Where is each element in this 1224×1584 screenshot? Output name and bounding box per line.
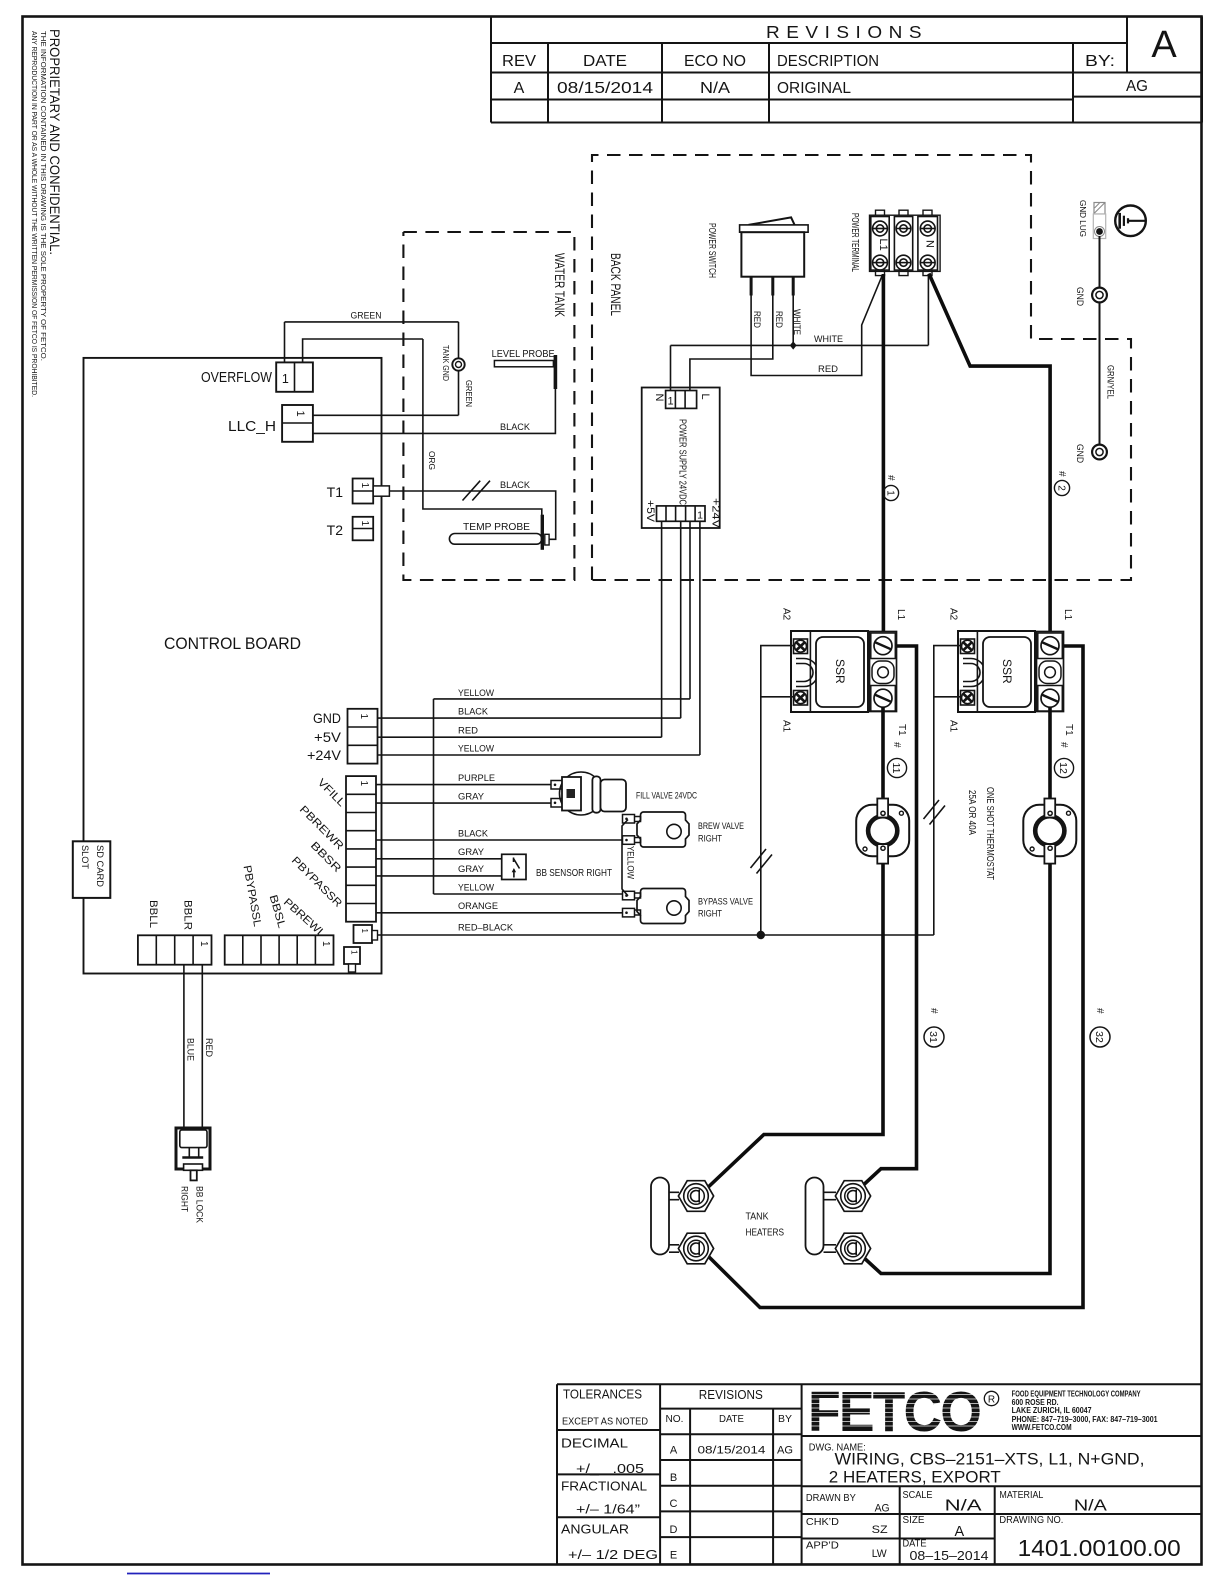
svg-text:SIZE: SIZE xyxy=(903,1515,925,1526)
revisions table xyxy=(491,17,1202,123)
svg-text:SLOT: SLOT xyxy=(79,845,90,869)
svg-text:BBLR: BBLR xyxy=(182,900,194,930)
svg-text:BLUE: BLUE xyxy=(186,1038,196,1061)
wire overflow pin2 xyxy=(303,339,423,362)
svg-text:TANK: TANK xyxy=(746,1211,769,1223)
brew valve right BV1 xyxy=(623,812,745,847)
svg-text:SCALE: SCALE xyxy=(903,1490,933,1501)
SSR U1 xyxy=(781,608,908,736)
svg-text:N/A: N/A xyxy=(700,80,730,97)
wire T1 black to temp probe xyxy=(389,491,555,539)
bb sensor right xyxy=(502,854,613,879)
svg-text:T1: T1 xyxy=(327,484,344,500)
svg-text:TANK GND: TANK GND xyxy=(441,345,451,381)
wire #12 xyxy=(1048,707,1052,799)
svg-text:GRAY: GRAY xyxy=(458,864,485,875)
svg-text:31: 31 xyxy=(927,1031,939,1043)
svg-text:1: 1 xyxy=(667,396,673,408)
svg-text:LLC_H: LLC_H xyxy=(228,419,276,435)
connector T1 xyxy=(327,479,390,504)
svg-text:A: A xyxy=(670,1445,678,1457)
svg-text:RIGHT: RIGHT xyxy=(180,1186,190,1212)
wire black gnd xyxy=(378,717,681,719)
svg-text:BACK PANEL: BACK PANEL xyxy=(608,253,623,316)
svg-text:ORANGE: ORANGE xyxy=(458,901,498,912)
wires bbll bblr down xyxy=(184,965,202,1128)
svg-text:+24V: +24V xyxy=(710,498,722,529)
svg-text:1: 1 xyxy=(358,714,369,720)
fetco logo xyxy=(808,1380,999,1444)
svg-text:LAKE ZURICH, IL 60047: LAKE ZURICH, IL 60047 xyxy=(1012,1406,1092,1415)
svg-text:TOLERANCES: TOLERANCES xyxy=(563,1387,642,1402)
svg-text:L1: L1 xyxy=(1062,609,1073,621)
svg-text:TEMP PROBE: TEMP PROBE xyxy=(463,521,530,533)
svg-text:GRAY: GRAY xyxy=(458,792,485,803)
wire white switch pin3 xyxy=(792,277,794,346)
company address xyxy=(1012,1390,1158,1433)
svg-text:1: 1 xyxy=(885,490,896,496)
svg-text:HEATERS: HEATERS xyxy=(746,1227,785,1239)
svg-text:ONE SHOT THERMOSTAT: ONE SHOT THERMOSTAT xyxy=(984,787,995,880)
svg-text:BYPASS VALVE: BYPASS VALVE xyxy=(698,897,753,907)
wire overflow pin1 up xyxy=(284,322,286,363)
svg-text:L1: L1 xyxy=(895,609,906,621)
connector overflow xyxy=(201,362,313,391)
wire #31 xyxy=(859,646,917,1190)
svg-text:1: 1 xyxy=(358,781,369,787)
svg-text:WIRING, CBS–2151–XTS, L1, N+GN: WIRING, CBS–2151–XTS, L1, N+GND, xyxy=(835,1451,1145,1469)
svg-text:DRAWN BY: DRAWN BY xyxy=(806,1493,856,1504)
svg-text:#: # xyxy=(1094,1008,1105,1014)
svg-text:LEVEL PROBE: LEVEL PROBE xyxy=(492,348,555,360)
svg-text:YELLOW: YELLOW xyxy=(458,744,494,755)
wire yellow +24v xyxy=(378,754,700,756)
svg-text:1: 1 xyxy=(360,929,369,934)
slash break ssr1 xyxy=(751,849,773,874)
fill valve FV1 xyxy=(551,772,697,815)
wire #1 thick xyxy=(882,274,886,640)
wire white horizontal xyxy=(671,275,929,346)
svg-text:1: 1 xyxy=(294,411,306,417)
wires from power supply down xyxy=(662,521,700,755)
svg-text:D: D xyxy=(670,1524,678,1536)
svg-text:ECO NO: ECO NO xyxy=(684,53,746,70)
svg-text:+/– 1/64”: +/– 1/64” xyxy=(576,1502,640,1517)
svg-text:ANY REPRODUCTION IN PART OR AS: ANY REPRODUCTION IN PART OR AS A WHOLE W… xyxy=(30,31,39,397)
svg-text:N/A: N/A xyxy=(1074,1498,1108,1515)
svg-text:LW: LW xyxy=(872,1548,888,1560)
svg-text:WHITE: WHITE xyxy=(814,334,843,345)
svg-text:N/A: N/A xyxy=(945,1498,983,1515)
svg-text:R: R xyxy=(988,1394,995,1405)
title block xyxy=(557,1384,1202,1564)
wire llc_h bottom black to level probe xyxy=(313,389,556,433)
slash break on T1 wire xyxy=(463,481,491,501)
wire #11 xyxy=(881,707,885,799)
wire green down from tank gnd xyxy=(458,371,460,416)
wire #2 thick xyxy=(929,274,1050,641)
control board xyxy=(84,358,382,974)
wire ssr1 A2/A1 xyxy=(761,646,794,935)
svg-text:32: 32 xyxy=(1093,1031,1105,1043)
svg-text:REV: REV xyxy=(502,53,536,70)
svg-text:1401.00100.00: 1401.00100.00 xyxy=(1018,1535,1181,1561)
svg-text:E: E xyxy=(670,1550,677,1562)
svg-text:A1: A1 xyxy=(781,720,792,733)
svg-text:OVERFLOW: OVERFLOW xyxy=(201,370,272,386)
wire yellow bus vertical xyxy=(433,699,435,894)
svg-text:DATE: DATE xyxy=(719,1414,744,1425)
svg-text:RED: RED xyxy=(774,311,784,328)
wire green horizontal xyxy=(285,321,459,323)
svg-text:THE INFORMATION CONTAINED IN T: THE INFORMATION CONTAINED IN THIS DRAWIN… xyxy=(39,31,48,361)
svg-text:FILL VALVE 24VDC: FILL VALVE 24VDC xyxy=(636,791,697,801)
wire thermostat2 to heater2 bottom xyxy=(856,864,1050,1274)
svg-text:T2: T2 xyxy=(327,522,344,538)
connector T2 xyxy=(327,517,374,541)
svg-text:GND: GND xyxy=(1075,444,1085,463)
connector llc_h xyxy=(228,405,313,442)
svg-text:BB SENSOR RIGHT: BB SENSOR RIGHT xyxy=(536,867,612,879)
svg-text:BLACK: BLACK xyxy=(500,480,531,491)
svg-text:GND: GND xyxy=(1075,287,1085,306)
thermostat TH1 xyxy=(856,799,909,864)
svg-text:ORG: ORG xyxy=(427,451,437,470)
svg-text:DATE: DATE xyxy=(583,53,627,70)
wire black brew valve xyxy=(376,839,623,841)
svg-text:ORIGINAL: ORIGINAL xyxy=(777,80,851,97)
svg-text:RED: RED xyxy=(458,726,478,737)
svg-text:GND LUG: GND LUG xyxy=(1078,200,1088,237)
svg-text:C: C xyxy=(670,1498,678,1510)
svg-text:EXCEPT AS NOTED: EXCEPT AS NOTED xyxy=(562,1417,648,1428)
svg-text:1: 1 xyxy=(320,941,331,947)
svg-text:08/15/2014: 08/15/2014 xyxy=(557,80,653,97)
svg-text:DRAWING NO.: DRAWING NO. xyxy=(999,1515,1063,1526)
junction white xyxy=(790,341,797,349)
bb lock right xyxy=(176,1128,210,1223)
back panel dashed box xyxy=(592,155,1131,580)
svg-text:GND: GND xyxy=(313,710,341,726)
svg-text:BLACK: BLACK xyxy=(500,422,531,433)
svg-text:DECIMAL: DECIMAL xyxy=(561,1436,628,1451)
svg-text:N: N xyxy=(924,240,936,248)
svg-text:A2: A2 xyxy=(781,608,792,621)
wire thermostat1 to heater1 top xyxy=(703,864,883,1192)
svg-text:BBLL: BBLL xyxy=(147,900,159,928)
connector small 2 xyxy=(344,947,360,972)
svg-text:GRN/YEL: GRN/YEL xyxy=(1106,365,1116,399)
temp probe xyxy=(449,515,549,550)
svg-text:BY:: BY: xyxy=(1085,53,1115,70)
svg-text:+/– 1/2 DEG: +/– 1/2 DEG xyxy=(568,1547,658,1562)
svg-text:RIGHT: RIGHT xyxy=(698,834,722,844)
svg-text:MATERIAL: MATERIAL xyxy=(999,1490,1043,1501)
svg-text:RED–BLACK: RED–BLACK xyxy=(458,923,514,934)
slash break ssr2 xyxy=(924,800,946,825)
svg-text:L1: L1 xyxy=(877,239,889,251)
wire llc_h top xyxy=(313,414,459,416)
wire grn/yel gnd lug to rings xyxy=(1099,236,1101,445)
wire #32 xyxy=(705,646,1084,1308)
svg-text:1: 1 xyxy=(359,483,370,489)
svg-text:SSR: SSR xyxy=(1000,659,1014,684)
svg-text:PROPRIETARY AND CONFIDENTIAL.: PROPRIETARY AND CONFIDENTIAL. xyxy=(47,29,63,255)
svg-text:RED: RED xyxy=(204,1038,214,1057)
svg-text:2 HEATERS, EXPORT: 2 HEATERS, EXPORT xyxy=(829,1469,1001,1487)
svg-text:YELLOW: YELLOW xyxy=(626,846,636,879)
svg-text:GREEN: GREEN xyxy=(464,380,474,407)
svg-text:08–15–2014: 08–15–2014 xyxy=(910,1548,989,1563)
svg-text:+5V: +5V xyxy=(314,729,342,745)
svg-text:1: 1 xyxy=(697,510,703,522)
wire red-black xyxy=(378,934,934,936)
svg-text:BLACK: BLACK xyxy=(458,707,489,718)
level probe xyxy=(492,348,556,389)
svg-text:GREEN: GREEN xyxy=(351,311,382,322)
svg-text:PURPLE: PURPLE xyxy=(458,773,495,784)
svg-text:FRACTIONAL: FRACTIONAL xyxy=(561,1479,647,1494)
svg-text:11: 11 xyxy=(890,763,902,774)
svg-text:AG: AG xyxy=(875,1503,890,1515)
svg-text:GRAY: GRAY xyxy=(458,847,485,858)
svg-text:WATER TANK: WATER TANK xyxy=(552,253,567,317)
svg-text:BY: BY xyxy=(778,1414,792,1425)
svg-text:#: # xyxy=(891,742,902,748)
svg-text:AG: AG xyxy=(777,1445,793,1457)
svg-text:WWW.FETCO.COM: WWW.FETCO.COM xyxy=(1012,1423,1072,1432)
connector red-black small xyxy=(354,925,378,943)
connector vfill block xyxy=(346,776,376,922)
thermostat TH2 xyxy=(1023,799,1076,864)
svg-text:SD CARD: SD CARD xyxy=(94,845,105,887)
svg-text:25A OR 40A: 25A OR 40A xyxy=(966,790,977,835)
svg-text:#: # xyxy=(885,475,896,481)
tank heater H1 xyxy=(651,1178,714,1264)
svg-text:#: # xyxy=(1058,742,1069,748)
svg-text:T1: T1 xyxy=(896,724,907,736)
svg-text:RED: RED xyxy=(752,311,762,328)
svg-text:SZ: SZ xyxy=(872,1524,888,1536)
svg-text:A: A xyxy=(514,80,525,97)
water tank dashed box xyxy=(403,232,574,580)
wire gray fill valve xyxy=(376,802,551,804)
svg-text:08/15/2014: 08/15/2014 xyxy=(698,1445,766,1457)
earth ground symbol xyxy=(1115,206,1146,237)
svg-text:A1: A1 xyxy=(948,720,959,733)
svg-text:REVISIONS: REVISIONS xyxy=(766,22,928,42)
wire red switch pin1 xyxy=(751,275,883,376)
svg-text:1: 1 xyxy=(350,950,359,955)
wire ssr2 A2/A1 xyxy=(934,646,961,935)
svg-text:+24V: +24V xyxy=(307,747,342,763)
svg-text:APP’D: APP’D xyxy=(806,1541,839,1552)
svg-text:N: N xyxy=(653,394,665,402)
svg-text:FETCO: FETCO xyxy=(808,1380,980,1444)
svg-text:ANGULAR: ANGULAR xyxy=(561,1522,629,1537)
tank gnd ring xyxy=(452,358,464,370)
connector bbll bblr xyxy=(138,900,212,965)
svg-text:YELLOW: YELLOW xyxy=(458,883,494,894)
wire red +5v xyxy=(378,736,662,738)
svg-text:REVISIONS: REVISIONS xyxy=(699,1387,763,1402)
svg-text:T1: T1 xyxy=(1063,724,1074,736)
blue link line xyxy=(127,1573,270,1575)
svg-text:1: 1 xyxy=(198,941,209,947)
svg-text:BREW VALVE: BREW VALVE xyxy=(698,821,744,831)
svg-text:+5V: +5V xyxy=(644,500,656,523)
connector gnd +5v +24v xyxy=(307,709,378,764)
proprietary note vertical text xyxy=(30,29,63,397)
svg-text:BB LOCK: BB LOCK xyxy=(195,1186,205,1223)
svg-text:B: B xyxy=(670,1472,677,1484)
power terminal TB1 xyxy=(849,210,940,275)
bypass valve right BV2 xyxy=(623,889,754,924)
svg-text:12: 12 xyxy=(1057,762,1069,774)
svg-text:+/_ .005: +/_ .005 xyxy=(576,1461,644,1476)
svg-text:A2: A2 xyxy=(948,608,959,621)
svg-text:POWER SUPPLY 24VDC: POWER SUPPLY 24VDC xyxy=(677,419,689,505)
wire gray sensor 1 xyxy=(376,858,502,860)
svg-text:SSR: SSR xyxy=(833,659,847,684)
wire yellow top xyxy=(434,698,691,700)
SSR U2 xyxy=(948,608,1075,736)
svg-text:A: A xyxy=(955,1524,965,1540)
wire yellow jumper xyxy=(622,820,628,896)
gnd ring terminal 1 xyxy=(1092,288,1107,303)
svg-text:#: # xyxy=(928,1008,939,1014)
svg-text:POWER TERMINAL: POWER TERMINAL xyxy=(849,213,861,272)
svg-text:A: A xyxy=(1151,24,1177,66)
svg-text:1: 1 xyxy=(282,372,289,386)
connector pbypassl bbsl xyxy=(225,935,334,964)
svg-text:CHK’D: CHK’D xyxy=(806,1517,839,1528)
power switch S1 xyxy=(706,217,808,335)
sd card slot xyxy=(73,841,111,898)
svg-text:NO.: NO. xyxy=(666,1414,684,1425)
svg-text:DESCRIPTION: DESCRIPTION xyxy=(777,53,879,70)
svg-text:BLACK: BLACK xyxy=(458,829,489,840)
svg-text:AG: AG xyxy=(1126,78,1148,95)
power supply PS1 xyxy=(642,388,722,529)
wire orange xyxy=(376,912,623,914)
svg-text:2: 2 xyxy=(1056,485,1067,491)
wire yellow bypass xyxy=(434,893,623,895)
wire purple xyxy=(376,784,551,786)
wire red switch pin2 to supply L xyxy=(690,277,773,391)
svg-text:YELLOW: YELLOW xyxy=(458,688,494,699)
tank heater H2 xyxy=(806,1178,871,1264)
gnd lug xyxy=(1078,200,1106,239)
svg-text:1: 1 xyxy=(359,521,370,527)
wire supply N up xyxy=(670,345,672,390)
svg-text:CONTROL BOARD: CONTROL BOARD xyxy=(164,635,301,653)
svg-text:POWER SWITCH: POWER SWITCH xyxy=(706,223,718,278)
junction red-black / ssr1 xyxy=(757,931,765,939)
svg-text:RED: RED xyxy=(818,364,838,375)
svg-text:RIGHT: RIGHT xyxy=(698,909,722,919)
wire org vertical xyxy=(423,339,542,515)
gnd ring terminal 2 xyxy=(1092,445,1107,460)
svg-text:#: # xyxy=(1056,471,1067,477)
wire gray sensor 2 xyxy=(376,875,502,877)
svg-text:L: L xyxy=(699,394,711,400)
